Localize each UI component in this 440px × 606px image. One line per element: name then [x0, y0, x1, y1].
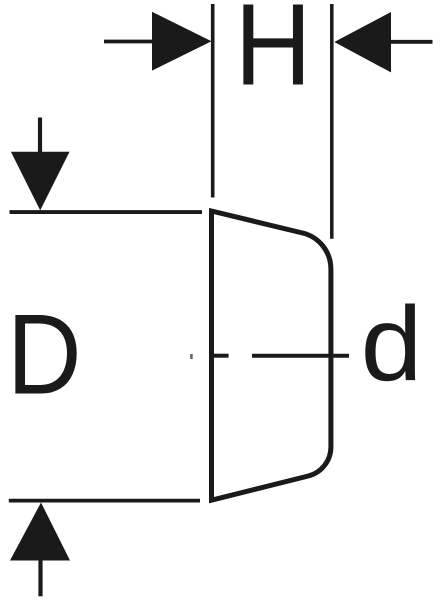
svg-text:d: d	[361, 285, 423, 403]
svg-text:H: H	[235, 0, 312, 109]
svg-text:D: D	[7, 292, 82, 419]
